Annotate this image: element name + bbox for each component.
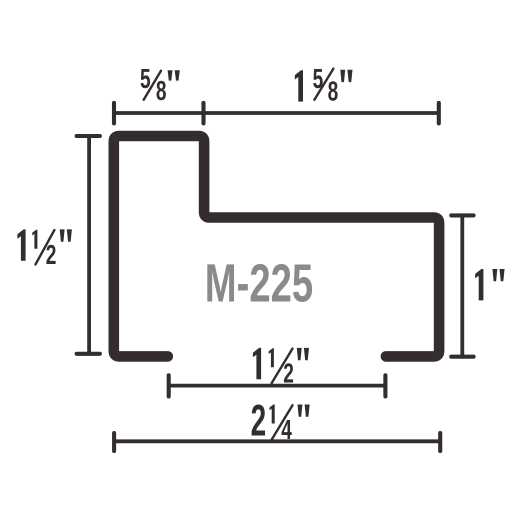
tick left bottom — [77, 352, 100, 356]
dimension line bottom inner (1 1/2 width) — [169, 384, 386, 388]
dimension line bottom outer (2 1/4 width) — [114, 439, 440, 443]
dimension label 5/8" — [140, 64, 180, 106]
tick right bottom — [451, 355, 473, 359]
dimension line top (5/8 and 1 5/8 widths) — [114, 111, 439, 115]
tick bottom-outer left — [112, 433, 116, 451]
dimension label 1 1/2" bottom — [253, 348, 309, 388]
svg-text:8: 8 — [328, 76, 339, 106]
tick bottom-inner right — [383, 375, 387, 396]
tick bottom-outer right — [438, 433, 442, 451]
tick top right — [437, 103, 441, 124]
svg-text:M-225: M-225 — [205, 253, 313, 313]
dimension label 2 1/4" bottom — [251, 395, 310, 445]
dimension label 1 5/8" — [295, 64, 353, 106]
dimension line right (1 inch height) — [460, 215, 464, 356]
tick top middle — [201, 103, 205, 124]
svg-text:8: 8 — [156, 76, 167, 106]
dimension label 1" right — [475, 269, 504, 300]
dimension line left (1 1/2 height) — [87, 136, 91, 354]
svg-text:2: 2 — [251, 395, 267, 445]
moulding profile outline M-225 — [114, 136, 439, 356]
dimension label 1 1/2" left — [17, 229, 72, 269]
tick left top — [77, 134, 100, 138]
tick bottom-inner left — [167, 375, 171, 396]
tick top left — [112, 103, 116, 124]
tick right top — [451, 213, 473, 217]
